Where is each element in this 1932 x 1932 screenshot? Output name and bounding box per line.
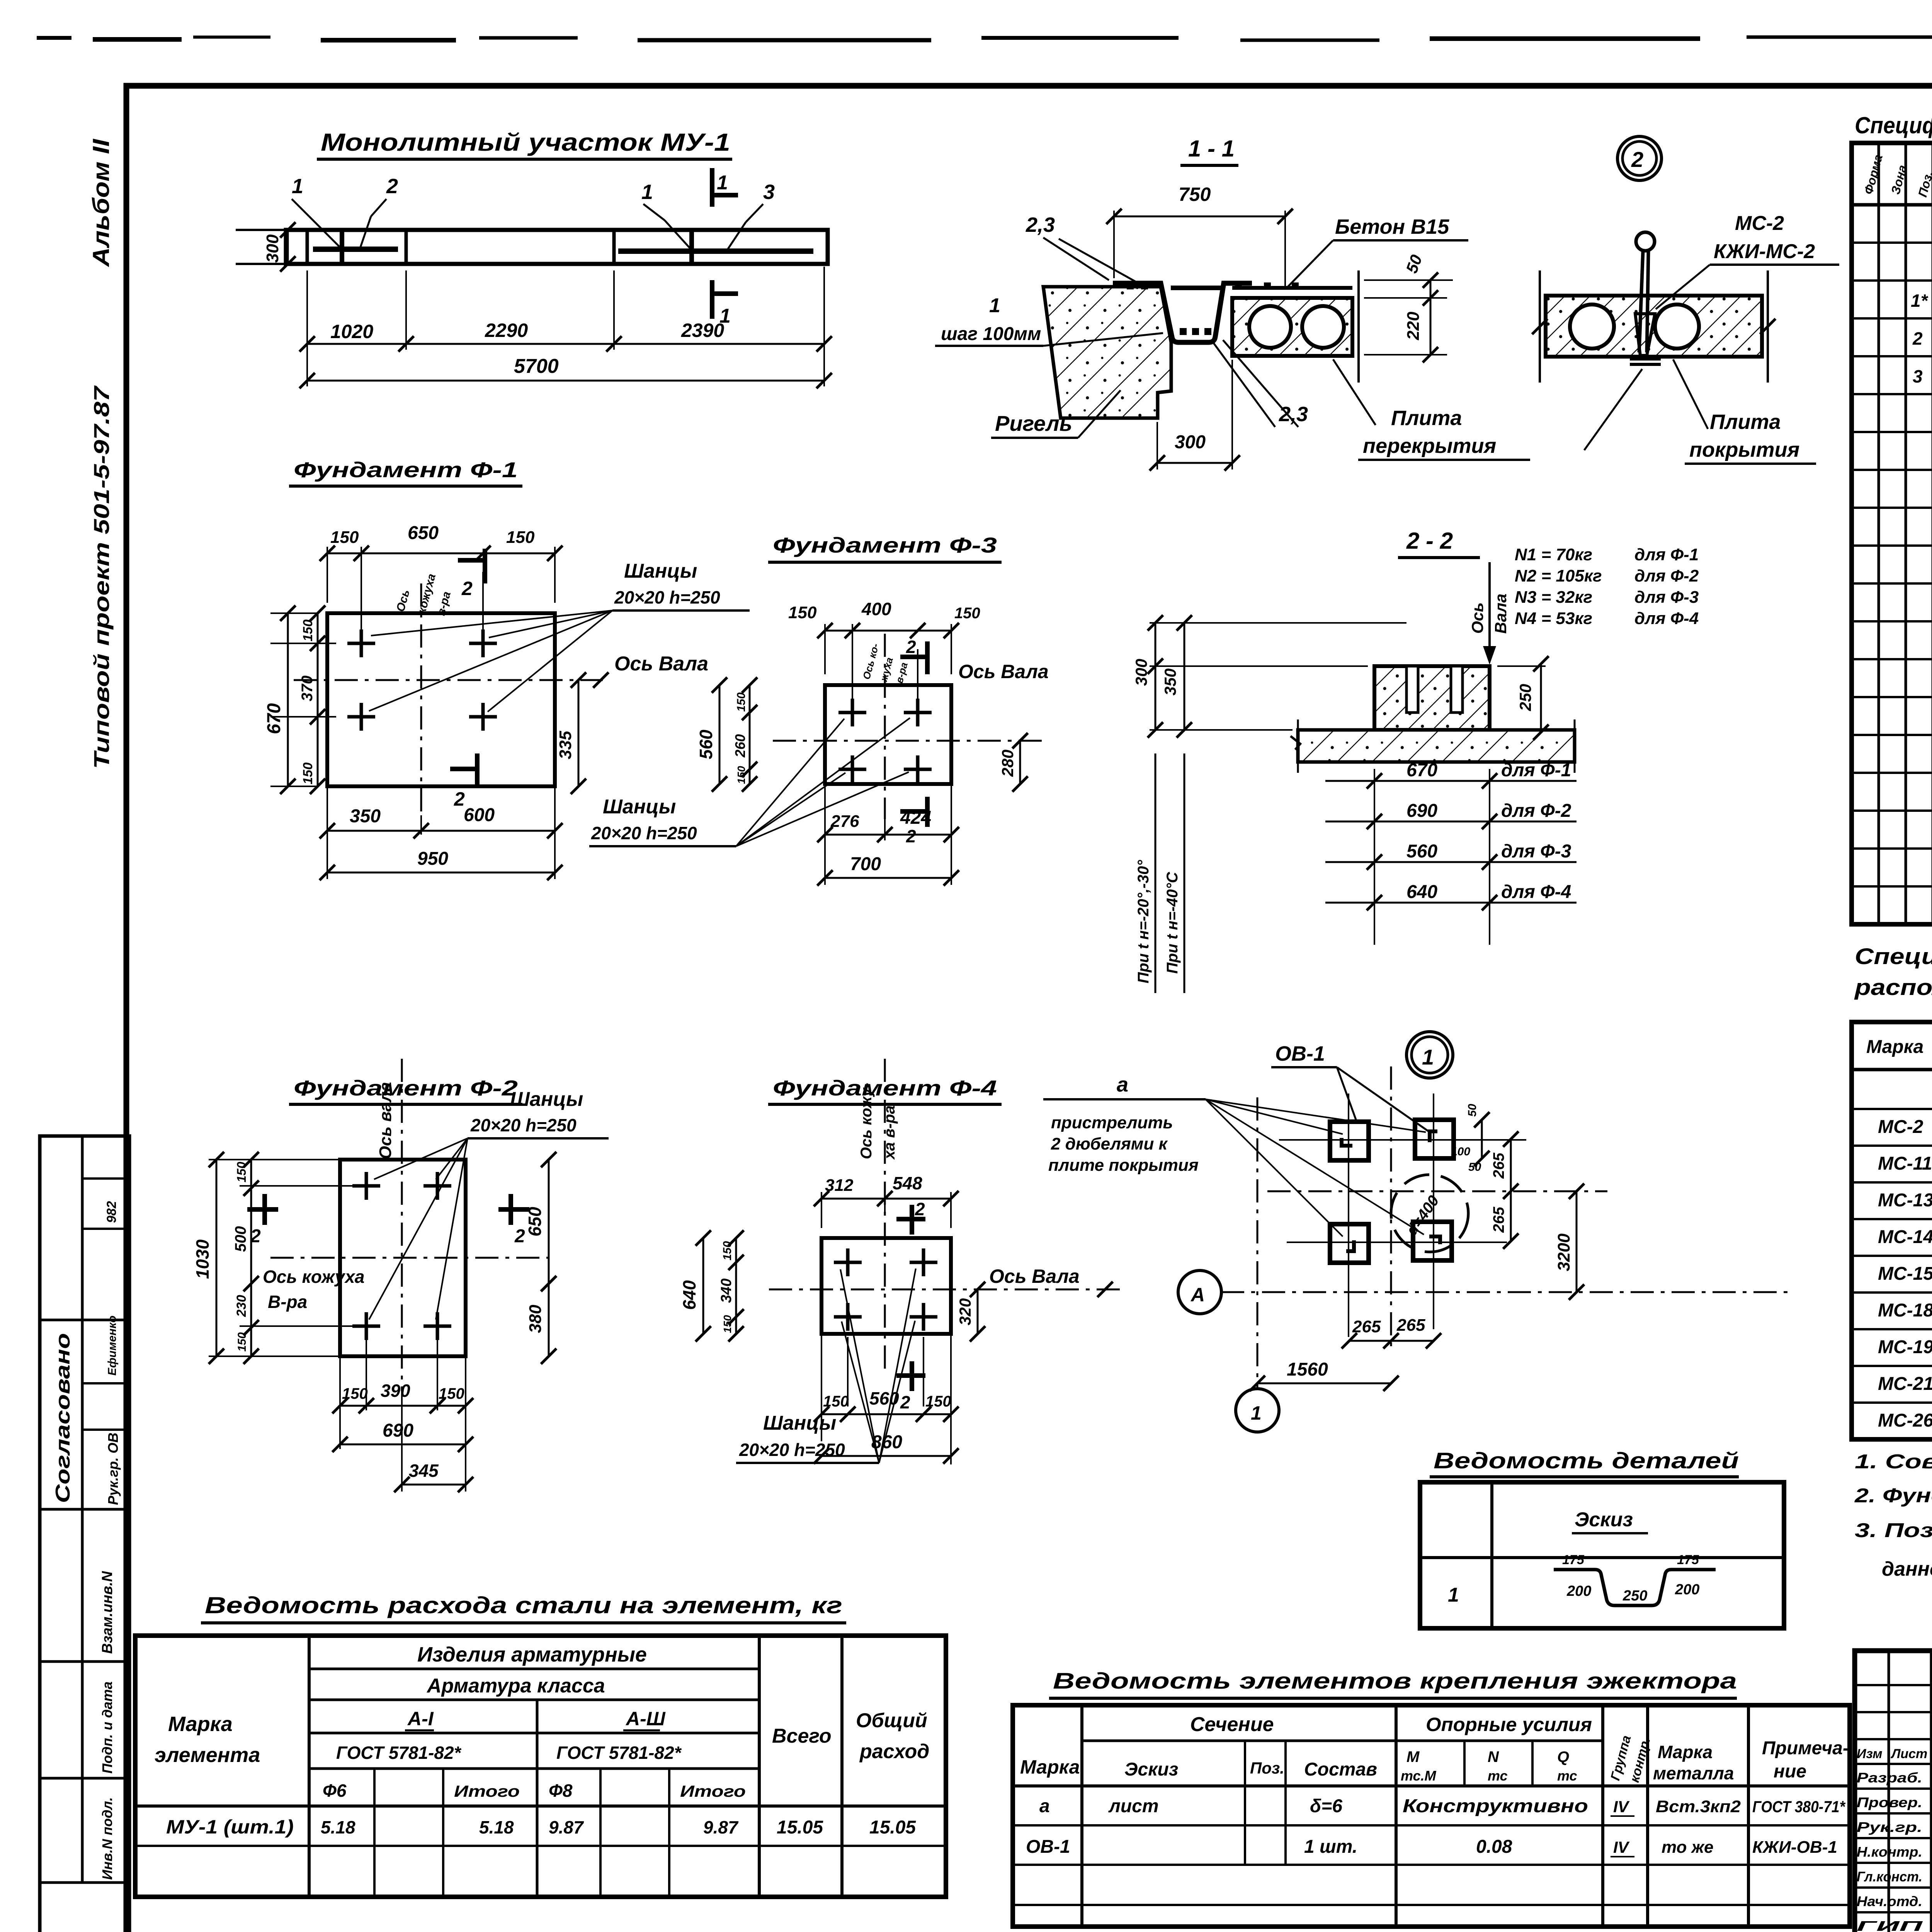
title Спецификация соединительных изделий [1854,944,1932,1000]
svg-text:345: 345 [409,1461,439,1481]
Ф-3 axes [773,634,1043,819]
svg-text:ГОСТ 5781-82*: ГОСТ 5781-82* [336,1743,462,1763]
Ф-2 left dims 1030 / 150 500 230 150 [192,1152,356,1364]
1-1 label 1 шаг 100мм [935,294,1163,346]
svg-text:2: 2 [250,1226,261,1247]
svg-text:Бетон В15: Бетон В15 [1335,215,1449,238]
svg-text:А: А [1190,1284,1205,1306]
Ф-2 plan outline [340,1160,466,1356]
Ф-4 label Ось вала [989,1265,1113,1297]
svg-text:N1 = 70кг: N1 = 70кг [1515,545,1592,564]
svg-text:150: 150 [788,603,817,622]
2-2 ground slab [1291,719,1575,773]
Ф-1 axis lines [294,583,603,815]
svg-text:Итого: Итого [680,1782,746,1800]
svg-text:Ведомость элементов креплени: Ведомость элементов крепления эжектора [1053,1668,1737,1694]
svg-text:Гл.конст.: Гл.конст. [1857,1869,1922,1884]
svg-text:перекрытия: перекрытия [1363,434,1496,457]
svg-text:370: 370 [299,675,316,701]
detail 1 label ОВ-1 [1271,1042,1430,1132]
svg-text:50: 50 [1466,1104,1479,1117]
svg-text:М: М [1406,1748,1420,1765]
svg-text:Итого: Итого [454,1782,520,1800]
svg-text:982: 982 [104,1201,119,1223]
svg-text:пристрелить: пристрелить [1051,1113,1173,1132]
spec table 1 data [1911,213,1932,923]
svg-text:Рук.гр.: Рук.гр. [1857,1819,1922,1835]
title Ведомость элементов крепления эжектора [1049,1668,1737,1698]
svg-text:для Ф-1: для Ф-1 [1634,545,1699,564]
svg-text:2: 2 [461,578,473,599]
label Ось кожуха в-ра (Ф-1, rotated) [394,572,453,617]
svg-text:2: 2 [1912,328,1923,349]
svg-text:175: 175 [1562,1553,1585,1567]
svg-text:9.87: 9.87 [703,1817,739,1837]
Ф-1 right dim 335 [491,672,586,794]
dim 300 (slab height) [263,222,296,272]
svg-text:20×20 h=250: 20×20 h=250 [470,1115,577,1135]
svg-text:300: 300 [1175,432,1206,452]
1-1 label 2,3 bottom [1211,340,1308,427]
svg-text:Ф6: Ф6 [323,1781,347,1801]
svg-text:При t н=-20°,-30°: При t н=-20°,-30° [1135,860,1152,983]
svg-text:500: 500 [232,1226,249,1252]
svg-text:Ось Вала: Ось Вала [614,653,708,675]
svg-text:Изм: Изм [1857,1747,1883,1761]
svg-text:950: 950 [417,849,448,869]
Ф-3 rotated axis labels [861,642,910,685]
margin text Согласовано [52,1333,74,1503]
svg-text:276: 276 [830,812,859,831]
svg-text:600: 600 [464,805,495,825]
svg-text:20×20 h=250: 20×20 h=250 [591,823,697,843]
svg-text:2: 2 [386,175,398,198]
detail 2 label Плита покрытия [1584,359,1816,464]
svg-text:3: 3 [1913,366,1923,386]
svg-text:1020: 1020 [330,321,373,342]
1-1 hollow-core slab [1232,270,1359,383]
svg-text:560: 560 [1406,841,1437,862]
Ф-2 bottom dims 150 390 150 / 690 / 345 [332,1336,473,1492]
svg-text:ние: ние [1774,1761,1806,1782]
svg-text:200: 200 [1675,1582,1699,1598]
Ф-3 bottom dims 276 424 / 700 [817,784,959,886]
svg-text:В-ра: В-ра [268,1292,307,1312]
svg-text:150: 150 [721,1241,734,1260]
Ф-1 section mark 2 top [458,549,485,599]
svg-text:МС-11: МС-11 [1878,1153,1932,1174]
svg-text:3200: 3200 [1554,1233,1573,1271]
svg-text:для Ф-4: для Ф-4 [1634,609,1699,628]
svg-text:Ф8: Ф8 [549,1781,573,1801]
svg-text:для Ф-4: для Ф-4 [1501,882,1571,902]
1-1 label Бетон В15 [1287,215,1468,288]
title Фундамент Ф-2 [289,1076,522,1104]
svg-text:Шанцы: Шанцы [603,796,676,818]
1-1 label Ригель [991,390,1121,438]
svg-text:250: 250 [1516,684,1534,711]
svg-text:N4 = 53кг: N4 = 53кг [1515,609,1592,628]
1-1 ригель hatched block [1043,287,1171,418]
Ф-3 label Шанцы 20x20 h=250 [589,718,910,846]
svg-text:15.05: 15.05 [869,1817,916,1838]
detail 1 small dims 50 100 50 [1451,1104,1490,1173]
Ф-1 shantsy crosses [347,629,497,731]
svg-text:Опорные усилия: Опорные усилия [1426,1714,1592,1735]
title Ведомость деталей [1430,1448,1739,1477]
svg-text:750: 750 [1179,184,1211,205]
svg-text:шаг 100мм: шаг 100мм [941,324,1041,344]
svg-text:150: 150 [236,1332,248,1352]
svg-text:Арматура класса: Арматура класса [426,1675,605,1697]
ejector table data [1026,1796,1845,1857]
svg-text:1*: 1* [1911,291,1929,311]
Ф-3 section mark 2 top [900,637,927,674]
svg-text:150: 150 [925,1393,951,1410]
section mark 1 top [712,168,738,207]
svg-text:2 - 2: 2 - 2 [1406,528,1453,554]
2-2 left dims 300 350 [1132,615,1406,738]
1-1 monolithic trough outline [1113,283,1252,342]
svg-text:Ведомость расхода стали на эле: Ведомость расхода стали на элемент, кг [205,1592,842,1618]
2-2 ось вала arrow [1430,562,1510,702]
svg-text:Конструктивно: Конструктивно [1403,1796,1588,1816]
Ф-4 label Шанцы [736,1269,916,1463]
svg-text:для Ф-2: для Ф-2 [1501,801,1571,821]
svg-text:2: 2 [514,1226,525,1247]
detail 1 anchor plates [1330,1120,1454,1263]
Ф-3 section mark 2 bottom [900,797,927,846]
svg-text:Плита: Плита [1710,410,1781,434]
svg-text:20×20 h=250: 20×20 h=250 [614,587,720,607]
leader 1 (right) [641,180,691,249]
margin text Подп. и дата [99,1682,115,1774]
svg-text:1: 1 [1422,1045,1434,1069]
svg-text:N: N [1488,1748,1499,1765]
svg-text:Ефименко: Ефименко [106,1316,119,1376]
scan artifact: torn top edge line [37,37,1932,42]
svg-text:ГИП: ГИП [1857,1918,1923,1932]
rebar item 2 in left block [313,232,398,263]
svg-text:Согласовано: Согласовано [52,1333,74,1503]
rebar item 3 in right block [618,232,813,263]
steel table headers [155,1643,929,1801]
detail 1 dims 265 265 bottom [1342,1316,1441,1349]
svg-text:2: 2 [906,826,916,846]
svg-text:Взам.инв.N: Взам.инв.N [99,1571,116,1654]
left margin stamp strip [40,1136,129,1932]
svg-text:2: 2 [900,1392,910,1412]
svg-text:560: 560 [696,730,716,759]
1-1 dims 50 220 [1364,252,1453,362]
detail 2 slab with cores [1532,270,1776,383]
svg-text:150: 150 [506,528,535,547]
title block signature rows [1857,1769,1932,1932]
svg-text:640: 640 [1406,882,1437,902]
Ф-4 plan outline [821,1238,951,1334]
Ф-2 section mark 2 left [247,1194,278,1247]
margin text Взам.инв.N [99,1571,116,1654]
Ф-2 label Ось кожуха В-ра [263,1267,364,1312]
Ф-4 bottom dims 150 560 150 / 860 [814,1334,959,1464]
svg-text:1 шт.: 1 шт. [1304,1837,1357,1857]
svg-text:350: 350 [350,806,381,827]
svg-text:150: 150 [954,605,980,622]
svg-text:0.08: 0.08 [1476,1837,1512,1857]
title Фундамент Ф-1 [289,457,522,486]
svg-text:260: 260 [732,734,748,758]
svg-text:670: 670 [1406,760,1437,781]
svg-text:150: 150 [735,692,748,712]
svg-text:Ось вала: Ось вала [376,1082,395,1159]
svg-text:для Ф-3: для Ф-3 [1501,841,1571,862]
leader 3 (right) [726,180,775,251]
svg-text:Ось: Ось [1468,602,1486,634]
svg-text:то же: то же [1662,1838,1714,1857]
svg-text:Марка: Марка [1658,1742,1713,1762]
spec table 2 data rows [1878,1117,1932,1431]
svg-text:ОВ-1: ОВ-1 [1275,1042,1325,1065]
2-2 rotated temperature labels [1135,753,1184,993]
svg-text:Вст.3кп2: Вст.3кп2 [1656,1797,1741,1816]
svg-text:100: 100 [1451,1145,1470,1158]
svg-text:элемента: элемента [155,1743,260,1767]
title block left grid [1855,1651,1932,1932]
Ф-2 right dims 650 380 [447,1152,556,1364]
svg-text:Q: Q [1557,1748,1569,1765]
section 1-1 title [1180,136,1238,165]
svg-text:N3 = 32кг: N3 = 32кг [1515,588,1592,607]
svg-text:175: 175 [1677,1553,1699,1567]
svg-text:400: 400 [861,599,891,619]
Ф-3 top dims 150 400 150 [788,599,980,701]
svg-text:Фундамент Ф-2: Фундамент Ф-2 [294,1076,518,1100]
Ф-3 crosses [838,699,932,783]
detail sketch in table [1554,1553,1716,1605]
svg-text:2390: 2390 [681,320,724,341]
svg-text:ГОСТ 5781-82*: ГОСТ 5781-82* [556,1743,682,1763]
detail 2 anchor МС-2 [1630,232,1661,364]
svg-text:Спецификация на монолитные кон: Спецификация на монолитные конструкции п… [1855,112,1932,138]
detail 1 dim 3200 [1445,1184,1584,1300]
svg-text:для Ф-1: для Ф-1 [1501,760,1571,781]
Ф-1 label Шанцы 20x20 h=250 [369,560,750,712]
svg-text:Марка: Марка [1866,1037,1923,1057]
svg-text:N2 = 105кг: N2 = 105кг [1515,566,1602,585]
Ф-1 section mark 2 bottom [450,753,477,810]
svg-text:150: 150 [735,766,747,784]
svg-text:15.05: 15.05 [777,1817,823,1838]
Ф-3 plan outline [825,685,951,784]
svg-text:Ведомость деталей: Ведомость деталей [1434,1448,1739,1473]
svg-text:Спецификация соединительных из: Спецификация соединительных изделий к сх… [1855,944,1932,969]
svg-text:150: 150 [342,1385,368,1402]
svg-text:Ось кожуха: Ось кожуха [263,1267,364,1287]
detail circle 2 [1617,136,1662,180]
svg-text:а: а [1039,1796,1050,1816]
svg-text:200: 200 [1566,1583,1591,1599]
svg-text:2. Фундаменты Ф-1÷Ф4 выполнит: 2. Фундаменты Ф-1÷Ф4 выполнить до устрой… [1854,1485,1932,1507]
svg-text:Шанцы: Шанцы [624,560,697,582]
svg-text:9.87: 9.87 [549,1817,584,1837]
svg-text:Марка: Марка [168,1713,233,1736]
svg-text:1. Совместно с данным листом: 1. Совместно с данным листом см. л. 14. [1855,1451,1932,1473]
svg-text:Эскиз: Эскиз [1124,1759,1178,1780]
svg-text:МС-13: МС-13 [1878,1190,1932,1211]
Ф-2 label Ось вала (rotated) [376,1082,395,1159]
svg-text:Ось Вала: Ось Вала [989,1265,1080,1287]
svg-text:покрытия: покрытия [1689,438,1799,461]
1-1 rebar dots [1127,282,1299,335]
Ф-4 rotated labels Ось кожуха в-ра [858,1083,898,1160]
svg-text:МС-14: МС-14 [1878,1227,1932,1247]
svg-text:650: 650 [525,1207,545,1236]
svg-text:МС-2: МС-2 [1878,1117,1923,1137]
section mark 1 bottom [712,280,738,327]
svg-text:Марка: Марка [1020,1756,1080,1778]
table Ведомость деталей [1420,1482,1784,1628]
svg-text:1: 1 [292,175,303,198]
svg-text:Общий: Общий [856,1709,927,1732]
title Фундамент Ф-3 [768,533,1002,562]
svg-text:Рук.гр. ОВ: Рук.гр. ОВ [105,1433,121,1505]
svg-text:Вала: Вала [1492,594,1510,634]
svg-text:2: 2 [906,637,916,657]
svg-text:МС-19: МС-19 [1878,1337,1932,1357]
svg-text:А-I: А-I [407,1708,434,1730]
svg-text:265: 265 [1490,1153,1507,1179]
1-1 dim 750 [1106,184,1293,286]
svg-text:265: 265 [1396,1316,1425,1335]
Ф-4 section mark 2 bottom [896,1361,925,1412]
svg-text:МС-21: МС-21 [1878,1374,1932,1394]
svg-text:Н.контр.: Н.контр. [1857,1844,1922,1860]
leader 1 (left) [292,175,340,247]
svg-text:Нач.отд.: Нач.отд. [1857,1893,1922,1909]
svg-text:2: 2 [1631,147,1643,172]
detail 1 leader а пристрелить [1043,1073,1426,1236]
svg-text:расход: расход [859,1740,929,1763]
svg-text:плите покрытия: плите покрытия [1048,1156,1199,1175]
svg-text:1: 1 [989,294,1000,317]
svg-text:МС-2: МС-2 [1735,212,1784,235]
svg-text:335: 335 [556,731,575,759]
svg-text:1: 1 [1448,1584,1459,1606]
steel table grid [135,1636,946,1897]
svg-text:230: 230 [234,1295,249,1317]
svg-text:340: 340 [718,1279,735,1303]
svg-text:320: 320 [956,1298,974,1325]
svg-text:2: 2 [454,788,465,810]
Ф-1 top dims 150 650 150 [320,523,563,634]
svg-text:IV: IV [1613,1838,1630,1856]
svg-text:2: 2 [915,1199,925,1219]
svg-text:265: 265 [1352,1317,1381,1336]
dim row 1020 / 2290 / 2390 [299,267,832,352]
detail 1 circled axis А [1178,1270,1221,1314]
2-2 dim 250 [1497,656,1549,740]
svg-text:5.18: 5.18 [321,1817,355,1837]
title block outer [1855,1651,1932,1932]
svg-text:Типовой проект 501-5-97.87: Типовой проект 501-5-97.87 [89,385,114,769]
svg-text:Изделия арматурные: Изделия арматурные [417,1643,647,1666]
svg-text:Сечение: Сечение [1190,1713,1274,1736]
svg-text:670: 670 [264,703,284,734]
2-2 bottom dim table 670/690/560/640 [1325,760,1577,945]
svg-text:20×20 h=250: 20×20 h=250 [739,1440,845,1460]
svg-text:150: 150 [235,1162,248,1182]
svg-text:650: 650 [408,523,439,543]
title Монолитный участок МУ-1 [317,128,732,159]
svg-text:690: 690 [1406,801,1437,821]
detail 1 right dims 265 265 [1490,1131,1519,1249]
svg-text:Альбом II: Альбом II [88,138,114,267]
Ф-4 section mark 2 top [896,1199,925,1235]
title Спецификация на монолитные конструкции [1855,112,1932,138]
svg-text:Лист: Лист [1890,1747,1927,1761]
svg-text:МУ-1 (шт.1): МУ-1 (шт.1) [166,1816,294,1838]
svg-text:1030: 1030 [192,1239,213,1279]
svg-text:а: а [1117,1073,1128,1096]
svg-text:лист: лист [1108,1796,1159,1816]
Ф-3 label Ось вала [958,661,1049,748]
title Ведомость расхода стали на элемент, кг [201,1592,846,1623]
svg-text:1: 1 [717,172,728,194]
svg-text:Всего: Всего [772,1725,832,1747]
dim 5700 [299,350,832,388]
svg-text:2290: 2290 [485,320,528,341]
svg-text:тс: тс [1557,1768,1577,1784]
vertical caption Типовой проект 501-5-97.87 [89,385,114,769]
spec table 1 grid [1852,143,1932,924]
title Фундамент Ф-4 [768,1076,1002,1104]
svg-text:2,3: 2,3 [1026,213,1055,236]
svg-text:150: 150 [330,528,359,547]
spec table 1 headers [1861,153,1932,199]
steel table data row [166,1816,916,1838]
svg-text:150: 150 [721,1315,733,1333]
svg-text:расположений плит перекрытия: расположений плит перекрытия и покрытия [1854,975,1932,1000]
ejector table headers [1020,1713,1849,1784]
svg-text:548: 548 [893,1173,922,1193]
svg-text:данном листе.: данном листе. [1882,1558,1932,1580]
spec table 2 grid [1852,1022,1932,1439]
svg-text:МС-18: МС-18 [1878,1300,1932,1321]
svg-text:1560: 1560 [1287,1359,1328,1380]
svg-text:Шанцы: Шанцы [763,1412,836,1434]
Ф-3 left dims 560 / 150 260 150 [696,677,842,792]
Ф-3 right dim 280 [998,733,1028,792]
svg-text:А-Ш: А-Ш [625,1708,666,1730]
Ф-4 left dims 640 / 150 340 150 [679,1230,821,1342]
svg-text:МС-26: МС-26 [1878,1410,1932,1431]
svg-text:IV: IV [1613,1798,1630,1816]
Ф-2 section mark 2 right [498,1194,529,1247]
1-1 label Плита перекрытия [1333,359,1530,460]
svg-text:МС-15: МС-15 [1878,1264,1932,1284]
ejector table grid [1013,1705,1850,1927]
detail 2 labels МС-2 КЖИ-МС-2 [1656,212,1839,309]
svg-text:Плита: Плита [1391,406,1462,430]
МУ-1 slab plan outline [236,230,828,264]
Ф-2 label Шанцы [369,1088,609,1320]
svg-text:Ось кожу-: Ось кожу- [858,1083,875,1159]
notes list [1854,1451,1932,1580]
svg-text:220: 220 [1404,311,1423,340]
svg-text:300: 300 [1132,659,1150,686]
svg-text:Эскиз: Эскиз [1575,1509,1633,1531]
spec table 2 headers [1866,1028,1932,1064]
